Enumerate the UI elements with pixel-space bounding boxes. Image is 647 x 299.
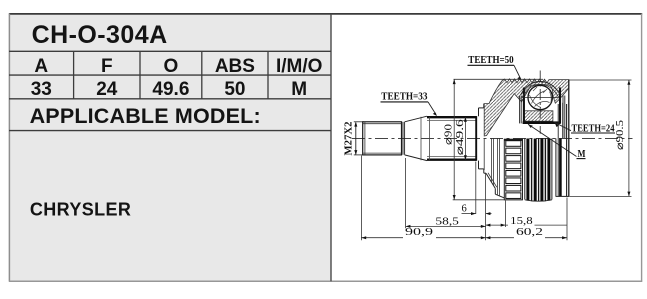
ball crosshair <box>522 71 559 134</box>
svg-text:58,5: 58,5 <box>435 216 459 227</box>
svg-text:6: 6 <box>462 203 467 214</box>
ABS tone ring with slots <box>504 139 522 200</box>
table/drawing divider <box>330 14 332 282</box>
label TEETH=24 with leader <box>555 122 616 134</box>
svg-text:15,8: 15,8 <box>510 216 533 227</box>
svg-text:TEETH=50: TEETH=50 <box>468 54 514 66</box>
thread M27X2 dimension line <box>344 122 365 156</box>
svg-text:33: 33 <box>31 79 52 100</box>
applicable model label <box>30 104 261 128</box>
table header row <box>34 56 322 77</box>
svg-text:⌀49.6: ⌀49.6 <box>455 119 466 155</box>
table background <box>10 14 331 282</box>
svg-text:I/M/O: I/M/O <box>276 56 322 77</box>
extension line bell rim <box>566 198 568 241</box>
inner race hatched section <box>523 111 553 121</box>
cage arcs over ball <box>521 82 561 98</box>
label TEETH=50 with leader <box>468 54 522 81</box>
svg-text:CHRYSLER: CHRYSLER <box>30 200 131 220</box>
bell housing upper section (hatched wall) <box>484 79 569 136</box>
extension line thread end <box>405 158 407 228</box>
threaded stub shaft <box>363 122 405 155</box>
svg-text:CH-O-304A: CH-O-304A <box>32 21 168 49</box>
dim diameter 49.6 <box>455 117 467 160</box>
svg-text:⌀90: ⌀90 <box>444 124 455 145</box>
dim 60.2 <box>516 227 567 239</box>
outer race serration band (lower external view) <box>525 139 552 202</box>
bell back steps upper <box>479 104 484 117</box>
svg-text:O: O <box>164 56 179 77</box>
dim 6 <box>462 203 492 215</box>
centerline <box>352 137 633 139</box>
extension line ABS edge <box>505 201 507 228</box>
dim diameter 90 <box>444 79 543 200</box>
extension line bell back <box>485 174 487 241</box>
dim 90.9 <box>361 227 514 239</box>
model name CHRYSLER <box>30 200 131 220</box>
svg-text:M27X2: M27X2 <box>344 122 355 156</box>
svg-text:TEETH=33: TEETH=33 <box>381 91 428 103</box>
svg-text:ABS: ABS <box>215 56 255 77</box>
table value row <box>31 79 307 100</box>
table grid lines <box>9 51 331 130</box>
spline section TEETH=33 <box>421 116 477 161</box>
bell rim (right end) <box>556 80 570 197</box>
svg-text:⌀90.5: ⌀90.5 <box>615 120 626 150</box>
cage bars left <box>520 88 524 124</box>
svg-text:50: 50 <box>224 79 245 100</box>
svg-text:90,9: 90,9 <box>405 227 433 238</box>
dim 15.8 <box>486 216 567 227</box>
svg-text:APPLICABLE MODEL:: APPLICABLE MODEL: <box>30 104 261 128</box>
cage bars right <box>560 88 565 139</box>
svg-text:24: 24 <box>96 79 118 100</box>
svg-text:M: M <box>291 79 307 100</box>
extension line shaft end <box>360 156 362 241</box>
svg-text:60,2: 60,2 <box>516 227 543 238</box>
label M with leader <box>528 124 586 160</box>
label TEETH=33 with leader <box>381 91 438 116</box>
dim diameter 90.5 <box>570 80 632 196</box>
svg-text:A: A <box>34 56 48 77</box>
extension line spline end <box>475 162 477 214</box>
table title CH-O-304A <box>32 21 168 49</box>
cone transition <box>405 116 427 160</box>
bell back steps lower <box>479 139 505 198</box>
dim 58.5 <box>406 216 486 228</box>
svg-text:F: F <box>101 56 113 77</box>
svg-text:49.6: 49.6 <box>152 79 189 100</box>
ball <box>528 85 552 109</box>
inner race spline bore (thick) <box>523 121 561 124</box>
